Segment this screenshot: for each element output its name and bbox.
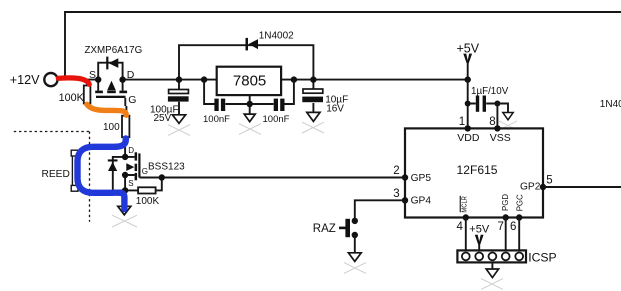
label pin number 7 [498, 221, 504, 233]
wire main +12V rail segments at y=79 [58, 79, 468, 81]
label 100 (R2 value) [103, 122, 120, 133]
svg-text:MCLR: MCLR [460, 196, 469, 213]
label 100K (R3 value) [136, 196, 160, 207]
pin 1 VDD dot [465, 125, 471, 131]
dashed boundary line [14, 132, 90, 222]
svg-text:100nF: 100nF [263, 114, 290, 125]
resistor R2 100 gate series [122, 106, 129, 140]
svg-text:VDD: VDD [457, 132, 480, 144]
svg-text:16V: 16V [326, 103, 344, 114]
ground under C1 [172, 115, 185, 124]
node D junction dot of Q2 [122, 154, 128, 160]
label PGC vertical [516, 194, 525, 211]
pin 7 PGD dot [503, 214, 509, 220]
power flag +5V at ICSP [475, 234, 484, 250]
svg-text:7: 7 [498, 221, 504, 233]
label RAZ (SW1) [313, 223, 336, 235]
wire top rail from +12V node to right edge [65, 12, 621, 79]
label REED [42, 169, 70, 180]
svg-text:REED: REED [42, 169, 70, 180]
svg-text:G: G [128, 94, 136, 106]
label pin number 5 [546, 174, 552, 186]
label VSS [490, 132, 511, 144]
wire pin4 to ICSP pin1 [465, 218, 467, 251]
label pin G of Q1 [128, 94, 136, 106]
svg-text:ZXMP6A17G: ZXMP6A17G [85, 45, 143, 56]
label +5V top [457, 42, 480, 56]
svg-text:GP4: GP4 [411, 196, 432, 207]
resistor R1 100K pull-up [84, 80, 91, 107]
svg-text:7805: 7805 [233, 72, 266, 89]
label pin D of Q2 [128, 146, 134, 155]
svg-text:6: 6 [510, 221, 516, 233]
node junction dot source of Q2 [122, 187, 128, 193]
label ICSP (J1) [528, 250, 556, 264]
svg-text:1N4002: 1N4002 [259, 31, 294, 42]
label 100nF (C2 value) [203, 114, 230, 125]
label pin G of Q2 [142, 167, 148, 176]
IC U1 12F615 [405, 128, 543, 217]
ground under RAZ [348, 253, 361, 262]
ground shadow X under C5 ground [499, 121, 517, 130]
node junction dot gate of Q2 [159, 174, 165, 180]
label 1N400x right edge [600, 99, 621, 110]
pin 2 GP5 dot [402, 174, 408, 180]
ground under Q2 source [118, 206, 131, 215]
wire ICSP pin3 to ground [491, 262, 493, 269]
label VDD [457, 132, 480, 144]
capacitor C3 100nF output [274, 99, 285, 111]
ground under 7805 [244, 114, 255, 122]
svg-text:12F615: 12F615 [457, 163, 498, 177]
svg-text:+5V: +5V [457, 42, 480, 56]
connector J1 ICSP [457, 250, 526, 262]
transistor Q1 ZXMP6A17G P-MOSFET [95, 63, 127, 106]
label MCLR vertical with overline [460, 196, 469, 213]
ground shadow X under C4 [302, 122, 324, 133]
svg-text:ICSP: ICSP [528, 250, 556, 264]
wire VSS to pin 8 [496, 104, 498, 129]
svg-text:2: 2 [393, 165, 399, 177]
label GP4 [411, 196, 432, 207]
resistor R3 100K pull-down [125, 178, 162, 194]
diode body diode of Q1 [106, 57, 118, 70]
label pin number 6 [510, 221, 516, 233]
switch SW1 RAZ pushbutton [339, 218, 358, 239]
label pin S of Q2 [128, 179, 133, 188]
wire GP2 to right edge [543, 186, 621, 188]
switch REED contact symbol [71, 150, 78, 191]
svg-text:S: S [128, 179, 133, 188]
svg-text:25V: 25V [154, 113, 172, 124]
wire GP5 net to BSS123 gate [162, 177, 405, 179]
pin 4 MCLR dot [463, 214, 469, 220]
svg-text:3: 3 [393, 188, 399, 200]
ground under ICSP [486, 269, 498, 278]
wire pin6 to ICSP pin5 [518, 218, 520, 251]
label ZXMP6A17G (Q1) [85, 45, 143, 56]
svg-text:4: 4 [457, 221, 464, 233]
node junction dot +5V rail [465, 76, 471, 82]
label +12V [10, 73, 40, 87]
node junction dot C5 right [494, 101, 500, 107]
wire red highlight +12V to Q1 source [58, 78, 89, 84]
node junction dot 7805 input [201, 76, 207, 82]
regulator U2 7805 [217, 67, 281, 95]
wire RAZ to ground [354, 235, 356, 253]
label 7805 (U2) [233, 72, 266, 89]
svg-text:GP5: GP5 [411, 173, 432, 184]
node junction dot 7805 ground pin [247, 101, 253, 107]
svg-text:100: 100 [103, 122, 120, 133]
wire pin7 to ICSP pin4 [505, 218, 507, 251]
label 1uF/10V (C5 value) [471, 86, 509, 97]
capacitor C2 100nF input [214, 99, 225, 111]
label GP5 [411, 173, 432, 184]
svg-text:1N400: 1N400 [600, 99, 621, 110]
svg-text:GP2: GP2 [520, 181, 541, 192]
svg-text:100nF: 100nF [203, 114, 230, 125]
ground near C5 [497, 104, 513, 120]
pin 3 GP4 dot [402, 197, 408, 203]
ground shadow X under Q2 [112, 215, 137, 227]
svg-text:G: G [142, 167, 148, 176]
pin 6 PGC dot [516, 214, 522, 220]
diode body diode of Q2 [108, 159, 118, 171]
svg-text:+5V: +5V [469, 224, 490, 236]
node D junction dot of Q1 [119, 76, 125, 82]
ground shadow X under ICSP [481, 279, 503, 290]
svg-text:VSS: VSS [490, 132, 511, 144]
label pin number 1 [459, 116, 465, 128]
label pin number 2 [393, 165, 399, 177]
node S junction dot of Q1 [95, 76, 101, 82]
wire GP4 net to RAZ button [355, 200, 405, 219]
ground shadow X under C1 [168, 125, 190, 136]
label 12F615 (U1) [457, 163, 498, 177]
label 10uF 16V (C4 value) [325, 94, 348, 114]
capacitor C4 10uF/16V [302, 80, 323, 113]
node +12V input terminal [44, 73, 57, 86]
power flag +5V top [463, 53, 472, 80]
label 1N4002 (D1) [259, 31, 294, 42]
svg-text:+12V: +12V [10, 73, 40, 87]
ground under C4 [307, 112, 320, 121]
node junction dot C5 left [465, 101, 471, 107]
wire orange highlight Q1 gate node [87, 104, 126, 115]
node junction dot 7805 output [291, 76, 297, 82]
label 100K (R1 value) [59, 92, 85, 104]
svg-text:RAZ: RAZ [313, 223, 336, 235]
node junction dot C1 on rail [176, 76, 182, 82]
label PGD vertical [501, 194, 510, 211]
label pin D of Q1 [127, 69, 135, 81]
ground shadow X under RAZ [344, 263, 366, 274]
label BSS123 (Q2) [148, 161, 185, 172]
svg-text:PGC: PGC [516, 194, 525, 211]
label pin number 3 [393, 188, 399, 200]
svg-text:5: 5 [546, 174, 552, 186]
svg-text:D: D [127, 69, 135, 81]
label pin S of Q1 [89, 69, 96, 81]
svg-text:8: 8 [489, 116, 495, 128]
svg-text:1: 1 [459, 116, 465, 128]
label 100nF (C3 value) [263, 114, 290, 125]
svg-text:D: D [128, 146, 134, 155]
node junction dot C4 on rail [310, 76, 316, 82]
label 100uF 25V (C1 value) [150, 105, 179, 124]
ground shadow X under 7805 [239, 124, 261, 135]
svg-text:S: S [89, 69, 96, 81]
label pin number 4 [457, 221, 464, 233]
node S junction dot of Q2 [122, 172, 128, 178]
pin 8 VSS dot [494, 125, 500, 131]
wire blue highlight reed loop [78, 139, 126, 210]
svg-text:100K: 100K [136, 196, 160, 207]
capacitor C1 100uF/25V [168, 80, 189, 115]
label +5V at ICSP [469, 224, 490, 236]
wire bypass diode loop over 7805 [179, 45, 313, 79]
label pin number 8 [489, 116, 495, 128]
svg-text:PGD: PGD [501, 194, 510, 211]
diode D1 1N4002 [246, 38, 259, 51]
wire VDD feed [467, 80, 469, 129]
pin 5 GP2 dot [540, 184, 546, 190]
label GP2 [520, 181, 541, 192]
wire 7805 ground network [204, 80, 294, 115]
svg-text:BSS123: BSS123 [148, 161, 185, 172]
svg-text:1µF/10V: 1µF/10V [471, 86, 509, 97]
capacitor C5 1uF/10V [468, 96, 498, 112]
transistor Q2 BSS123 N-MOSFET [113, 146, 162, 190]
svg-text:100K: 100K [59, 92, 85, 104]
